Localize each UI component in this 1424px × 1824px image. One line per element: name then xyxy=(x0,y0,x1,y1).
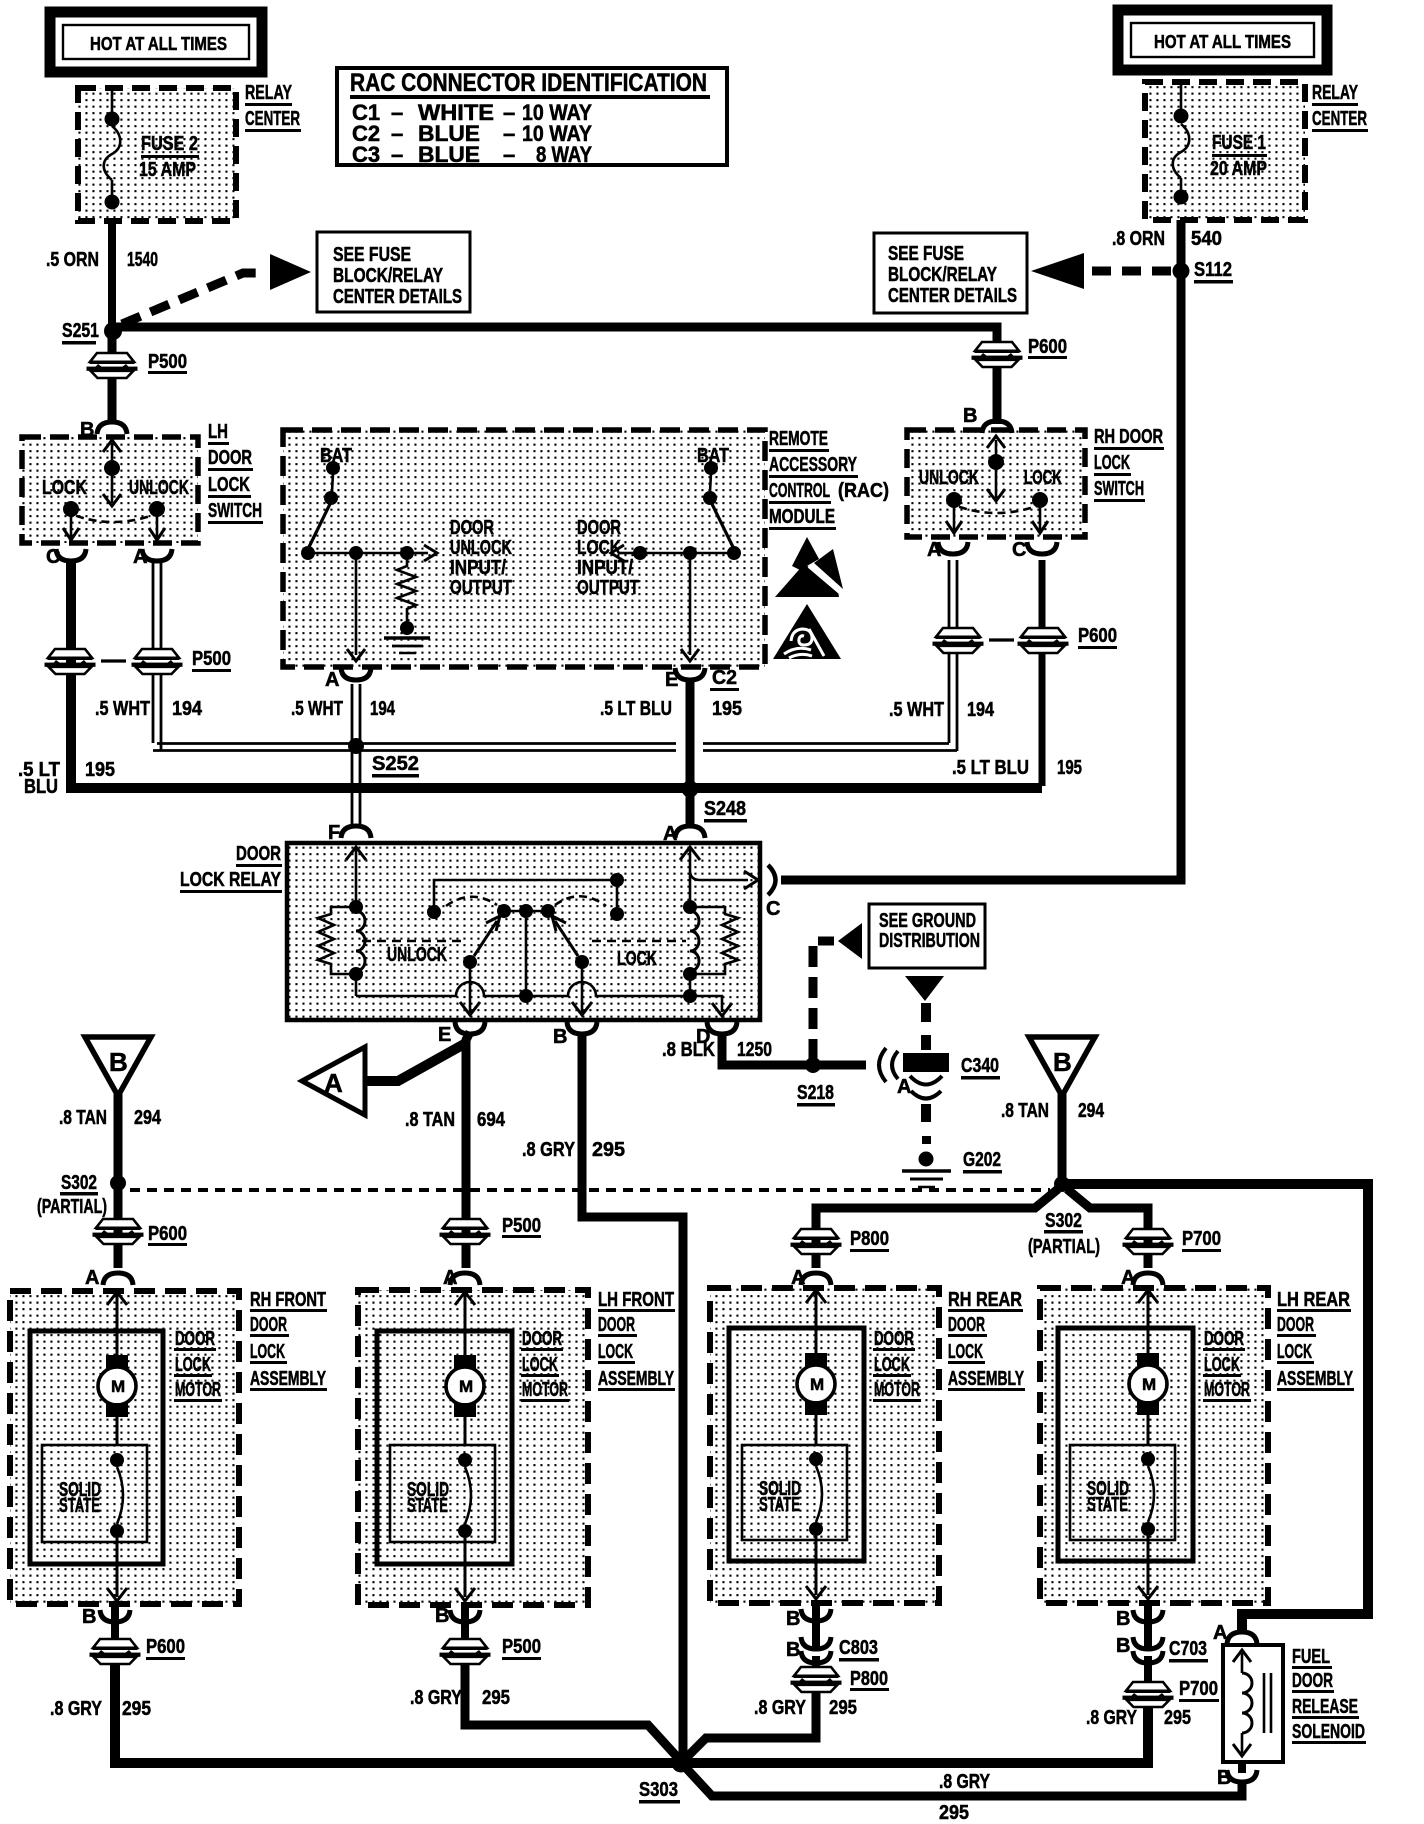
svg-text:P800: P800 xyxy=(850,1228,889,1250)
svg-text:HOT AT ALL TIMES: HOT AT ALL TIMES xyxy=(90,34,227,54)
svg-text:DOOR: DOOR xyxy=(1204,1328,1244,1350)
svg-text:P600: P600 xyxy=(146,1636,185,1658)
svg-text:A: A xyxy=(1213,1622,1227,1644)
svg-text:DOOR: DOOR xyxy=(598,1314,635,1336)
svg-text:.8 GRY: .8 GRY xyxy=(522,1139,576,1161)
svg-text:RH DOOR: RH DOOR xyxy=(1094,426,1163,448)
svg-text:.5 ORN: .5 ORN xyxy=(46,249,99,271)
svg-text:DISTRIBUTION: DISTRIBUTION xyxy=(879,930,980,952)
svg-text:295: 295 xyxy=(592,1139,625,1161)
svg-text:ASSEMBLY: ASSEMBLY xyxy=(1277,1368,1353,1390)
svg-text:SEE FUSE: SEE FUSE xyxy=(333,244,411,266)
svg-text:P600: P600 xyxy=(1028,336,1067,358)
svg-text:20 AMP: 20 AMP xyxy=(1210,158,1267,180)
svg-text:A: A xyxy=(325,669,339,691)
svg-text:M: M xyxy=(810,1375,824,1394)
svg-text:LH REAR: LH REAR xyxy=(1277,1289,1350,1311)
svg-text:LOCK: LOCK xyxy=(577,537,621,559)
svg-text:S248: S248 xyxy=(704,798,746,820)
svg-text:LOCK: LOCK xyxy=(874,1354,910,1376)
svg-text:DOOR: DOOR xyxy=(522,1328,562,1350)
svg-text:295: 295 xyxy=(829,1697,857,1719)
svg-text:(RAC): (RAC) xyxy=(838,480,889,502)
svg-text:195: 195 xyxy=(85,759,115,781)
svg-text:.8 TAN: .8 TAN xyxy=(405,1109,455,1131)
svg-text:STATE: STATE xyxy=(759,1494,800,1516)
svg-text:295: 295 xyxy=(122,1698,151,1720)
svg-text:.5 LT BLU: .5 LT BLU xyxy=(600,698,672,720)
svg-text:LOCK: LOCK xyxy=(1024,467,1062,489)
svg-text:UNLOCK: UNLOCK xyxy=(387,944,447,966)
svg-text:DOOR: DOOR xyxy=(208,447,252,469)
svg-text:E: E xyxy=(665,669,678,691)
svg-text:LOCK RELAY: LOCK RELAY xyxy=(180,869,282,891)
svg-text:194: 194 xyxy=(172,698,203,720)
svg-text:.8 TAN: .8 TAN xyxy=(1001,1100,1049,1122)
svg-text:UNLOCK: UNLOCK xyxy=(919,467,979,489)
svg-text:(PARTIAL): (PARTIAL) xyxy=(1028,1236,1100,1258)
svg-text:MOTOR: MOTOR xyxy=(874,1379,920,1401)
svg-text:C340: C340 xyxy=(961,1055,999,1077)
svg-text:CENTER DETAILS: CENTER DETAILS xyxy=(888,285,1017,307)
svg-text:BAT: BAT xyxy=(320,445,352,467)
svg-text:540: 540 xyxy=(1191,228,1222,250)
svg-text:LOCK: LOCK xyxy=(522,1354,558,1376)
svg-text:1250: 1250 xyxy=(737,1039,772,1061)
svg-text:M: M xyxy=(459,1377,473,1396)
svg-text:C703: C703 xyxy=(1169,1638,1207,1660)
svg-text:.8 GRY: .8 GRY xyxy=(939,1771,991,1793)
svg-text:ASSEMBLY: ASSEMBLY xyxy=(948,1368,1024,1390)
svg-text:.5 WHT: .5 WHT xyxy=(95,698,150,720)
svg-text:BLOCK/RELAY: BLOCK/RELAY xyxy=(333,265,444,287)
svg-text:DOOR: DOOR xyxy=(1277,1314,1314,1336)
svg-text:.8 GRY: .8 GRY xyxy=(754,1697,807,1719)
svg-text:M: M xyxy=(1142,1375,1156,1394)
svg-text:195: 195 xyxy=(1057,757,1082,779)
svg-text:294: 294 xyxy=(1078,1100,1105,1122)
svg-text:BLUE: BLUE xyxy=(418,142,480,167)
svg-text:C803: C803 xyxy=(839,1637,878,1659)
svg-text:P600: P600 xyxy=(1078,625,1117,647)
svg-text:DOOR: DOOR xyxy=(450,517,494,539)
svg-text:LOCK: LOCK xyxy=(175,1354,211,1376)
svg-text:RAC CONNECTOR IDENTIFICATION: RAC CONNECTOR IDENTIFICATION xyxy=(350,69,707,97)
svg-text:MOTOR: MOTOR xyxy=(1204,1379,1250,1401)
svg-text:STATE: STATE xyxy=(59,1495,100,1517)
svg-text:LOCK: LOCK xyxy=(250,1341,285,1363)
svg-text:CONTROL: CONTROL xyxy=(769,480,830,502)
svg-text:B: B xyxy=(1217,1767,1231,1789)
svg-text:FUSE 2: FUSE 2 xyxy=(141,133,198,155)
svg-text:C: C xyxy=(46,546,60,568)
svg-text:ACCESSORY: ACCESSORY xyxy=(769,454,857,476)
svg-text:S302: S302 xyxy=(61,1172,97,1194)
svg-text:STATE: STATE xyxy=(1087,1494,1128,1516)
svg-text:A: A xyxy=(85,1267,99,1289)
svg-text:A: A xyxy=(324,1068,343,1098)
svg-text:ASSEMBLY: ASSEMBLY xyxy=(250,1368,326,1390)
svg-text:M: M xyxy=(111,1377,125,1396)
svg-text:B: B xyxy=(435,1605,449,1627)
svg-text:.5 WHT: .5 WHT xyxy=(291,698,343,720)
svg-text:SWITCH: SWITCH xyxy=(208,500,262,522)
svg-text:BLOCK/RELAY: BLOCK/RELAY xyxy=(888,264,998,286)
svg-text:B: B xyxy=(1116,1608,1130,1630)
svg-text:A: A xyxy=(133,546,147,568)
svg-text:LOCK: LOCK xyxy=(1094,452,1130,474)
svg-text:B: B xyxy=(1053,1047,1072,1077)
svg-text:INPUT/: INPUT/ xyxy=(450,557,506,579)
svg-text:C2: C2 xyxy=(712,667,737,689)
svg-text:P700: P700 xyxy=(1182,1228,1221,1250)
svg-text:B: B xyxy=(109,1047,128,1077)
svg-text:S252: S252 xyxy=(372,753,419,775)
svg-text:MOTOR: MOTOR xyxy=(522,1379,568,1401)
svg-text:–: – xyxy=(503,142,515,167)
svg-text:295: 295 xyxy=(482,1687,510,1709)
svg-text:194: 194 xyxy=(967,699,995,721)
svg-text:LOCK: LOCK xyxy=(1277,1341,1312,1363)
svg-text:MOTOR: MOTOR xyxy=(175,1379,221,1401)
svg-text:A: A xyxy=(663,823,677,845)
svg-text:P700: P700 xyxy=(1179,1678,1218,1700)
svg-text:DOOR: DOOR xyxy=(175,1328,215,1350)
svg-text:LOCK: LOCK xyxy=(617,948,657,970)
svg-text:(PARTIAL): (PARTIAL) xyxy=(37,1196,107,1218)
svg-text:LOCK: LOCK xyxy=(42,477,87,499)
svg-text:295: 295 xyxy=(1164,1707,1191,1729)
svg-text:DOOR: DOOR xyxy=(1292,1670,1333,1692)
svg-text:BLU: BLU xyxy=(24,776,58,798)
svg-text:P600: P600 xyxy=(148,1223,187,1245)
svg-text:B: B xyxy=(963,405,977,427)
svg-text:S303: S303 xyxy=(639,1779,678,1801)
svg-text:STATE: STATE xyxy=(407,1495,448,1517)
svg-text:OUTPUT: OUTPUT xyxy=(577,577,639,599)
svg-text:C: C xyxy=(1012,539,1026,561)
svg-text:B: B xyxy=(553,1026,567,1048)
svg-text:HOT AT ALL TIMES: HOT AT ALL TIMES xyxy=(1154,32,1291,52)
svg-text:.8 GRY: .8 GRY xyxy=(1086,1707,1138,1729)
svg-text:.8 ORN: .8 ORN xyxy=(1112,228,1165,250)
svg-text:P500: P500 xyxy=(192,648,231,670)
svg-text:DOOR: DOOR xyxy=(236,843,281,865)
svg-text:A: A xyxy=(927,539,941,561)
svg-text:ASSEMBLY: ASSEMBLY xyxy=(598,1368,674,1390)
svg-text:SOLENOID: SOLENOID xyxy=(1292,1721,1365,1743)
svg-text:LOCK: LOCK xyxy=(208,474,250,496)
svg-text:195: 195 xyxy=(712,698,742,720)
svg-text:A: A xyxy=(897,1076,911,1098)
svg-text:B: B xyxy=(80,419,94,441)
svg-text:P500: P500 xyxy=(502,1636,541,1658)
svg-text:8 WAY: 8 WAY xyxy=(536,142,592,167)
svg-text:S251: S251 xyxy=(62,320,99,342)
svg-text:LH: LH xyxy=(208,421,228,443)
svg-text:CENTER: CENTER xyxy=(1312,108,1367,130)
svg-text:INPUT/: INPUT/ xyxy=(577,557,633,579)
svg-text:B: B xyxy=(786,1639,800,1661)
svg-text:.5 LT BLU: .5 LT BLU xyxy=(952,757,1029,779)
svg-text:UNLOCK: UNLOCK xyxy=(450,537,512,559)
svg-text:DOOR: DOOR xyxy=(948,1314,985,1336)
svg-text:C: C xyxy=(766,898,780,920)
svg-text:15 AMP: 15 AMP xyxy=(139,159,196,181)
svg-text:F: F xyxy=(328,822,340,844)
svg-text:295: 295 xyxy=(939,1802,969,1824)
svg-text:CENTER DETAILS: CENTER DETAILS xyxy=(333,286,462,308)
svg-text:C3: C3 xyxy=(352,142,380,167)
svg-text:SEE GROUND: SEE GROUND xyxy=(879,910,976,932)
svg-text:RH REAR: RH REAR xyxy=(948,1289,1022,1311)
svg-text:694: 694 xyxy=(477,1109,506,1131)
svg-text:–: – xyxy=(391,142,403,167)
svg-text:294: 294 xyxy=(134,1107,162,1129)
svg-text:RELAY: RELAY xyxy=(245,82,292,104)
svg-text:LOCK: LOCK xyxy=(1204,1354,1240,1376)
svg-text:B: B xyxy=(786,1608,800,1630)
svg-text:DOOR: DOOR xyxy=(250,1314,287,1336)
svg-text:.8 TAN: .8 TAN xyxy=(59,1107,107,1129)
svg-text:G202: G202 xyxy=(963,1149,1001,1171)
svg-text:RELEASE: RELEASE xyxy=(1292,1696,1358,1718)
svg-text:E: E xyxy=(438,1024,451,1046)
svg-text:BAT: BAT xyxy=(697,445,729,467)
svg-text:P500: P500 xyxy=(502,1215,541,1237)
svg-text:SWITCH: SWITCH xyxy=(1094,478,1144,500)
svg-text:S218: S218 xyxy=(797,1082,834,1104)
svg-text:.5 WHT: .5 WHT xyxy=(889,699,944,721)
svg-text:SEE FUSE: SEE FUSE xyxy=(888,243,964,265)
svg-text:B: B xyxy=(82,1606,96,1628)
svg-text:CENTER: CENTER xyxy=(245,108,300,130)
svg-text:.8 GRY: .8 GRY xyxy=(410,1687,463,1709)
svg-text:.8 BLK: .8 BLK xyxy=(662,1039,715,1061)
svg-text:FUEL: FUEL xyxy=(1292,1646,1330,1668)
svg-text:RH FRONT: RH FRONT xyxy=(250,1289,326,1311)
svg-text:RELAY: RELAY xyxy=(1312,82,1358,104)
svg-text:P800: P800 xyxy=(850,1668,888,1690)
svg-text:S112: S112 xyxy=(1194,259,1232,281)
svg-text:FUSE 1: FUSE 1 xyxy=(1212,132,1266,154)
svg-text:P500: P500 xyxy=(148,351,187,373)
svg-text:LH FRONT: LH FRONT xyxy=(598,1289,674,1311)
svg-text:LOCK: LOCK xyxy=(948,1341,983,1363)
svg-text:194: 194 xyxy=(370,698,396,720)
svg-text:.8 GRY: .8 GRY xyxy=(50,1698,103,1720)
svg-text:UNLOCK: UNLOCK xyxy=(129,477,189,499)
svg-text:MODULE: MODULE xyxy=(769,506,835,528)
svg-text:DOOR: DOOR xyxy=(577,517,621,539)
svg-text:REMOTE: REMOTE xyxy=(769,428,828,450)
svg-text:1540: 1540 xyxy=(127,249,158,271)
svg-text:B: B xyxy=(1116,1635,1130,1657)
svg-text:LOCK: LOCK xyxy=(598,1341,633,1363)
svg-text:DOOR: DOOR xyxy=(874,1328,914,1350)
svg-text:S302: S302 xyxy=(1045,1210,1082,1232)
svg-text:OUTPUT: OUTPUT xyxy=(450,577,512,599)
